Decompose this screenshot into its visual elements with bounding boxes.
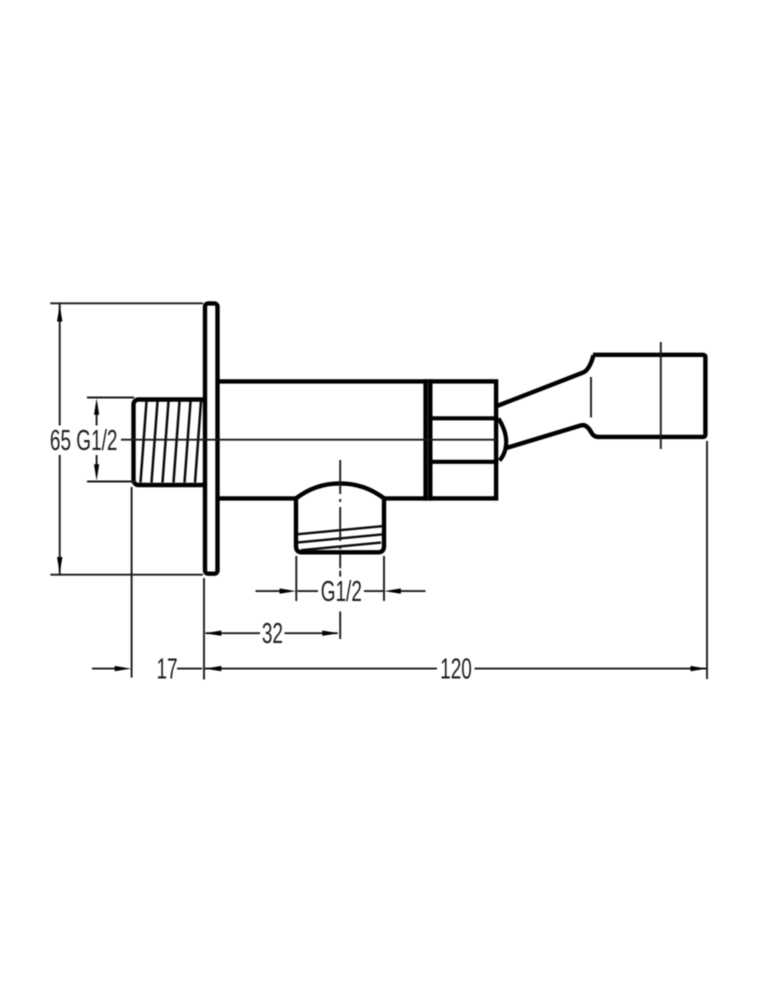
svg-text:17: 17 xyxy=(156,654,177,686)
svg-text:32: 32 xyxy=(262,618,283,650)
svg-text:65 G1/2: 65 G1/2 xyxy=(50,425,118,457)
svg-text:120: 120 xyxy=(440,654,472,686)
svg-text:G1/2: G1/2 xyxy=(321,576,362,608)
